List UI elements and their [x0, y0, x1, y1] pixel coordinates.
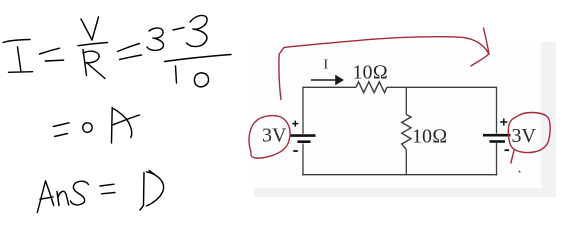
svg-text:10Ω: 10Ω [412, 126, 447, 148]
svg-text:10Ω: 10Ω [353, 62, 388, 84]
svg-text:I: I [324, 58, 329, 73]
short plate [490, 140, 506, 143]
red annotation: circle around right 3V [508, 113, 550, 173]
minus sign [505, 149, 510, 151]
battery V2 3V (right) [483, 118, 511, 150]
plus sign [500, 118, 507, 125]
long plate [483, 134, 511, 137]
resistor R1 10 ohm (top, zigzag) [356, 82, 387, 93]
wire top left segment [303, 86, 356, 88]
red annotation: big swoosh arrow over circuit [279, 28, 489, 100]
circuit: outer loop wires [302, 87, 497, 176]
svg-text:3V: 3V [262, 125, 287, 147]
wire left vertical lower [302, 144, 304, 176]
wire bottom [302, 174, 497, 176]
handwritten = 0 A [53, 108, 139, 144]
handwritten formula I = V/R [3, 17, 108, 79]
long plate [290, 134, 316, 137]
wire middle vertical upper [405, 87, 407, 114]
wire right vertical upper [496, 87, 498, 134]
minus sign [293, 150, 298, 152]
resistor R2 10 ohm (middle, vertical zigzag) [402, 115, 411, 150]
plus sign [292, 121, 298, 127]
wire top right segment [387, 86, 497, 88]
figure background (pasted screenshot area) [254, 42, 556, 197]
current arrow I [311, 75, 344, 85]
svg-text:3V: 3V [512, 125, 537, 147]
battery V1 3V (left) [290, 121, 316, 151]
handwritten Ans = D [37, 171, 163, 213]
wire right vertical lower [496, 143, 498, 176]
red annotation: circle around left 3V [249, 116, 290, 158]
handwritten = 3-3/10 [118, 15, 232, 86]
wire left vertical upper [302, 87, 304, 134]
wire middle vertical lower [405, 150, 407, 175]
short plate [298, 140, 311, 143]
